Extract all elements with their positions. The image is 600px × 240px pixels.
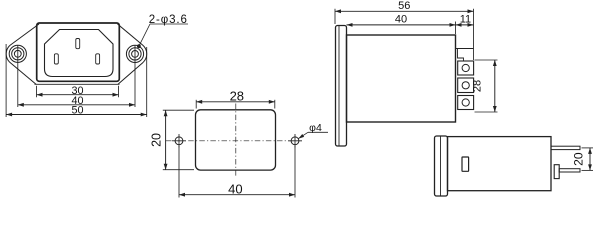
- view 3: terminal 3 box: [458, 96, 474, 110]
- view 1: right wing tip arc: [143, 46, 146, 63]
- view 3: terminal 1 box: [458, 61, 474, 75]
- view 4: top faston pin: [551, 146, 580, 149]
- view 3: mounting flange plate: [336, 26, 347, 147]
- view 3: dimension 11: [456, 24, 474, 26]
- view 1: right mounting hole: [126, 45, 143, 62]
- view 2: body rounded rectangle: [196, 110, 276, 170]
- svg-text:28: 28: [472, 80, 484, 92]
- view 2: vertical centerline: [235, 104, 237, 177]
- view 3: dimension 56: [335, 10, 474, 12]
- svg-text:11: 11: [460, 14, 471, 26]
- view 4: bottom pin base: [554, 165, 559, 179]
- view 1: right wing edges: [118, 24, 144, 84]
- view 1: left mounting hole: [9, 45, 26, 62]
- view 1: dimension 30: [37, 94, 119, 96]
- view 1: earth pin: [76, 39, 80, 49]
- view 1: flange bottom edge: [35, 83, 120, 85]
- svg-text:40: 40: [395, 14, 407, 26]
- view 1: IEC inlet front view - body outline: [37, 23, 120, 81]
- view 3: terminal block top step: [456, 49, 474, 62]
- view 4: filter body: [448, 137, 552, 191]
- view 1: live pin: [54, 54, 58, 64]
- view 1: hole centerlines: [17, 45, 19, 107]
- svg-text:50: 50: [71, 104, 83, 116]
- view 2: left mounting hole: [175, 137, 183, 145]
- view 4: mounting flange plate: [435, 136, 448, 196]
- svg-text:20: 20: [149, 133, 163, 147]
- view 3: dimension 28 vertical: [494, 60, 496, 112]
- view 2: dimension 40: [179, 194, 295, 196]
- svg-text:40: 40: [228, 181, 242, 196]
- view 4: flange inner line: [440, 137, 442, 196]
- svg-text:56: 56: [398, 0, 410, 12]
- view 3: extension lines: [334, 9, 336, 24]
- view 3: terminal 2 screw: [462, 82, 469, 89]
- view 4: bottom faston blade: [559, 169, 580, 172]
- view 4: small window detail: [462, 157, 469, 171]
- view 2: right mounting hole: [291, 137, 299, 145]
- view 1: neutral pin: [96, 54, 100, 64]
- view 1: dimension 40: [18, 104, 135, 106]
- view 3: dimension 40: [347, 24, 456, 26]
- view 3: terminal 3 screw: [462, 99, 469, 106]
- view 1: dimension 50: [6, 114, 147, 116]
- view 4: dimension 20 vertical: [589, 148, 591, 171]
- view 1: extension lines: [36, 86, 38, 97]
- view 3: filter body: [347, 35, 456, 122]
- view 2: dimension 28: [196, 101, 275, 103]
- view 3: terminal 1 screw: [462, 64, 469, 71]
- view 1: left wing edges: [10, 24, 39, 84]
- view 2: horizontal centerline: [166, 140, 302, 142]
- view 1: left wing tip arc: [6, 46, 9, 63]
- svg-text:20: 20: [571, 152, 585, 166]
- view 3: flange inner line: [338, 26, 340, 146]
- view 1: socket recess: [45, 30, 114, 77]
- view 3: terminal 2 box: [458, 78, 474, 93]
- view 4: extension lines: [582, 147, 594, 149]
- view 2: extension lines: [195, 100, 197, 109]
- view 2: dimension 20 vertical: [165, 110, 167, 170]
- svg-text:28: 28: [230, 88, 244, 103]
